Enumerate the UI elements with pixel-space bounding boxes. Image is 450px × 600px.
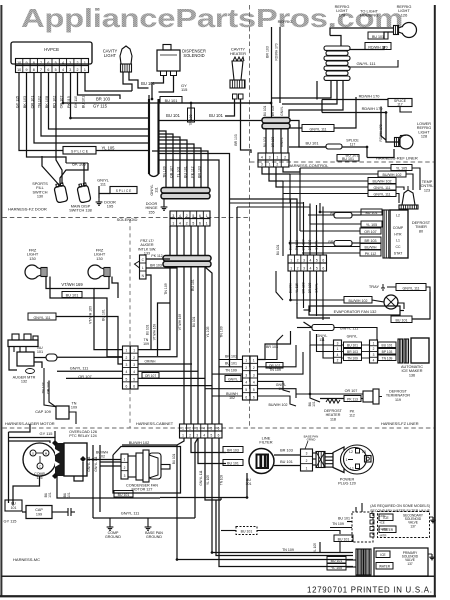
tc wires [300, 167, 391, 169]
svg-text:BU 101: BU 101 [146, 324, 150, 335]
mc drop gn/yl [205, 438, 221, 500]
svg-text:199: 199 [36, 513, 42, 517]
svg-text:OR 107: OR 107 [170, 166, 174, 178]
svg-text:4: 4 [253, 381, 255, 385]
junction dot [92, 458, 94, 460]
svg-text:4: 4 [133, 370, 135, 374]
svg-text:C: C [142, 258, 145, 262]
evaporator fan box [309, 306, 400, 315]
svg-text:178: 178 [339, 12, 346, 17]
svg-text:OR 107: OR 107 [345, 389, 358, 393]
svg-text:L2: L2 [349, 450, 353, 454]
wire bu101 545 [221, 530, 236, 532]
mc drop 2 [191, 438, 226, 453]
auger strip wire 1 [138, 267, 170, 350]
svg-text:YL 105: YL 105 [313, 543, 317, 553]
svg-text:195: 195 [107, 204, 114, 209]
svg-text:BR 103: BR 103 [198, 166, 202, 178]
svg-text:5: 5 [316, 259, 318, 263]
ice maker body [411, 338, 429, 363]
timer wires low [296, 246, 360, 248]
svg-text:10: 10 [17, 61, 21, 65]
lower bar connector [163, 256, 211, 262]
fzl feed wires [219, 359, 243, 361]
svg-text:TN 109: TN 109 [347, 356, 358, 360]
svg-text:1: 1 [182, 427, 184, 431]
svg-text:1: 1 [125, 349, 127, 353]
svg-text:REFRIG: REFRIG [278, 19, 293, 24]
section boundary vertical (control/liner) [249, 5, 251, 428]
wire bu101 liner [367, 149, 394, 158]
svg-text:2: 2 [186, 214, 188, 218]
door harness connector block [170, 211, 210, 219]
wire bu/wh cf [122, 438, 184, 445]
svg-text:2: 2 [297, 259, 299, 263]
splice box [63, 147, 96, 155]
wire rdwh down to bulb [386, 113, 399, 143]
svg-text:GY 115: GY 115 [40, 431, 54, 436]
svg-text:BR 103: BR 103 [347, 350, 358, 354]
frz wire 2 [50, 277, 123, 357]
svg-text:GN/YL 111: GN/YL 111 [402, 286, 419, 290]
svg-text:PK 112: PK 112 [151, 254, 162, 258]
svg-text:L1: L1 [350, 467, 354, 471]
door switch wire 3 [83, 163, 85, 186]
defrost heater symbol [326, 399, 340, 403]
wire rdwh to splice [322, 99, 388, 101]
lower refrig bulb [399, 135, 413, 149]
wire corner x229 [159, 154, 230, 301]
svg-text:4: 4 [203, 427, 205, 431]
svg-text:RD/WH 170: RD/WH 170 [275, 43, 279, 60]
secondary valve cells [379, 514, 393, 521]
wire pin1 run [85, 86, 132, 91]
svg-text:TL 102: TL 102 [177, 167, 181, 178]
door switch 1 [53, 183, 68, 203]
junction dot [289, 299, 291, 301]
svg-text:HARNESS-FZ LINER: HARNESS-FZ LINER [381, 421, 419, 426]
ptc relay black bar [55, 443, 64, 476]
svg-text:BU 101: BU 101 [366, 211, 378, 215]
frz wire stubs [94, 277, 109, 289]
line filter core [257, 455, 269, 469]
wire BK 103 pin9 run [27, 86, 67, 163]
label BU 101 evap [391, 316, 412, 323]
label BU 101 frz [62, 292, 82, 298]
svg-text:SOLENOID: SOLENOID [117, 217, 138, 222]
svg-text:6: 6 [47, 68, 49, 72]
svg-text:BU 101: BU 101 [172, 453, 176, 464]
svg-text:137: 137 [410, 524, 416, 528]
svg-text:BU 101: BU 101 [382, 343, 393, 347]
junction dot [62, 102, 64, 104]
label BR 103 lf1 [223, 447, 243, 453]
svg-text:1: 1 [337, 347, 339, 351]
svg-text:BU 101: BU 101 [396, 318, 408, 322]
svg-text:MOTOR 127: MOTOR 127 [132, 488, 153, 492]
condenser fan strip [121, 454, 128, 479]
wire TN 102 pin7 run [41, 86, 149, 136]
svg-text:5: 5 [253, 388, 255, 392]
svg-text:2: 2 [253, 366, 255, 370]
auger strip wire 6 [138, 385, 213, 387]
svg-text:111: 111 [278, 387, 283, 391]
splice pill 117 [326, 144, 342, 149]
primary valve box [374, 548, 428, 576]
svg-text:RD/WH 170: RD/WH 170 [359, 94, 381, 99]
defrost heater wires [310, 345, 320, 402]
bundle wire PK 112 [159, 144, 195, 187]
svg-text:5: 5 [192, 214, 194, 218]
svg-text:111: 111 [155, 187, 159, 193]
frz wire 1 [46, 277, 123, 350]
svg-text:BU 101: BU 101 [192, 316, 196, 327]
svg-text:115: 115 [181, 87, 188, 92]
svg-text:BU/WH 102: BU/WH 102 [269, 403, 288, 407]
junction dot [309, 393, 311, 395]
svg-text:3: 3 [69, 61, 71, 65]
plug cable [325, 453, 333, 455]
dispenser solenoid wires [152, 76, 164, 100]
wire PK 115 pin3 GY115 run [71, 86, 149, 118]
svg-text:5: 5 [125, 377, 127, 381]
svg-text:3: 3 [172, 214, 174, 218]
bundle wire OR 107 [159, 134, 174, 187]
liner conn drop 2 [269, 167, 283, 181]
svg-text:HARNESS-CABINET: HARNESS-CABINET [136, 421, 174, 426]
svg-text:4: 4 [373, 359, 375, 363]
svg-text:7: 7 [40, 68, 42, 72]
svg-text:BU 101: BU 101 [276, 244, 280, 255]
svg-text:4: 4 [261, 156, 263, 160]
junction dot [151, 98, 153, 100]
svg-text:PLUG 120: PLUG 120 [338, 482, 356, 486]
label PK 112 timer [360, 250, 381, 256]
svg-text:S P L I C E: S P L I C E [71, 149, 89, 153]
svg-text:4: 4 [310, 259, 312, 263]
svg-text:101: 101 [48, 492, 52, 498]
svg-text:HVPCB: HVPCB [44, 47, 59, 52]
svg-text:PK 113: PK 113 [347, 397, 358, 401]
svg-text:BU 101: BU 101 [225, 362, 237, 366]
mc drop 3 [198, 438, 226, 464]
svg-text:TN 109: TN 109 [220, 475, 224, 486]
svg-text:3: 3 [306, 452, 308, 456]
wire or107 dt [296, 393, 363, 395]
plug body [341, 445, 374, 474]
svg-text:2: 2 [77, 68, 79, 72]
wire relay bottoms [57, 476, 160, 498]
svg-text:BU/WH: BU/WH [365, 245, 377, 249]
HVPCB pin wire GY 115 [18, 73, 20, 87]
svg-text:L: L [142, 266, 144, 270]
label GN/YL 111 tray [396, 284, 426, 291]
plug wires [313, 452, 317, 454]
svg-text:BR 103: BR 103 [234, 134, 238, 145]
wv dashed connector [352, 512, 373, 542]
refrig 126 wires [330, 28, 394, 36]
svg-text:109: 109 [71, 406, 77, 410]
svg-text:GN/YL 111: GN/YL 111 [94, 456, 98, 471]
plug trapezoid [333, 447, 344, 473]
svg-text:117: 117 [350, 142, 356, 146]
svg-text:5: 5 [210, 427, 212, 431]
label BU 101 boxed cf [114, 491, 133, 498]
wire rdwh 2 [322, 112, 386, 114]
auger motor terminals [12, 334, 19, 340]
junction dot [69, 117, 71, 119]
svg-text:101: 101 [312, 401, 316, 407]
svg-text:2: 2 [297, 267, 299, 271]
svg-text:BU 101: BU 101 [263, 105, 267, 116]
svg-text:OR 107: OR 107 [364, 230, 376, 234]
evap wires 2 [297, 303, 330, 318]
HVPCB pin wire PK 115 [70, 73, 72, 87]
refrig 126 wires2 [350, 46, 384, 50]
svg-text:BU 101: BU 101 [347, 343, 358, 347]
svg-text:3: 3 [261, 163, 263, 167]
svg-text:5: 5 [316, 267, 318, 271]
junction dot [176, 558, 178, 560]
svg-text:111: 111 [100, 182, 106, 187]
svg-text:BU 101: BU 101 [338, 517, 350, 521]
auger motor body [17, 352, 34, 366]
svg-text:1: 1 [124, 458, 126, 462]
label BU/WH 102 boxed tc1 [378, 171, 406, 177]
svg-text:5: 5 [245, 388, 247, 392]
auger harness connector [123, 346, 131, 389]
ellipse under motor [26, 369, 35, 374]
svg-text:GN/YL 111: GN/YL 111 [121, 511, 140, 516]
plug strip [301, 449, 313, 471]
refrig light 126 bulb [402, 23, 417, 38]
wire or107 auger [66, 377, 123, 379]
svg-text:3: 3 [269, 156, 271, 160]
im boxed labels mid [344, 342, 362, 348]
wire BK106 horiz [66, 162, 88, 164]
svg-text:112: 112 [349, 414, 355, 418]
label YL 105 boxed tc [391, 165, 412, 171]
svg-text:1: 1 [290, 259, 292, 263]
svg-text:BU 101: BU 101 [166, 113, 180, 118]
svg-text:3: 3 [245, 373, 247, 377]
gnd wire [93, 517, 195, 519]
svg-text:GN/YL 111: GN/YL 111 [309, 127, 326, 131]
liner conn drop 4 [283, 167, 300, 172]
plug face [344, 448, 367, 471]
svg-text:4: 4 [179, 222, 181, 226]
svg-text:2: 2 [245, 366, 247, 370]
wire relay to fan [87, 459, 121, 461]
svg-text:2: 2 [189, 427, 191, 431]
liner vertical stubs [279, 98, 281, 103]
svg-text:101: 101 [11, 506, 17, 510]
wire RD 102 pin5 run [56, 86, 62, 184]
svg-text:4: 4 [62, 68, 64, 72]
splice 117a box [388, 99, 412, 107]
svg-text:130: 130 [29, 256, 36, 261]
junction dot [246, 496, 248, 498]
svg-text:BU 101: BU 101 [118, 493, 130, 497]
svg-text:6: 6 [322, 259, 324, 263]
liner conn drop 1 [262, 167, 290, 174]
svg-text:137: 137 [407, 562, 413, 566]
svg-text:4: 4 [125, 370, 127, 374]
svg-text:PTC RELAY 124: PTC RELAY 124 [69, 434, 96, 438]
label OR 107 timer [360, 228, 381, 234]
svg-text:GN/YL 111: GN/YL 111 [356, 61, 376, 66]
svg-text:LIGHT: LIGHT [104, 53, 117, 58]
cavity light bulb [120, 46, 132, 64]
svg-text:117: 117 [397, 103, 403, 107]
gn/yl verticals mc [92, 445, 94, 518]
svg-text:GN/YL: GN/YL [228, 377, 238, 381]
svg-text:CAP: CAP [35, 508, 43, 512]
bottom inner border line [1, 575, 435, 577]
svg-text:BU/WH 102: BU/WH 102 [349, 299, 368, 303]
svg-text:GN/YL: GN/YL [347, 335, 358, 339]
HVPCB pin wire RD 102 [55, 73, 57, 87]
svg-text:126: 126 [401, 12, 408, 17]
label BU 101 r126 [368, 32, 388, 39]
svg-text:HARNESS-REF LINER: HARNESS-REF LINER [376, 156, 418, 161]
svg-text:1: 1 [346, 458, 348, 462]
svg-text:1: 1 [245, 359, 247, 363]
im hatched connector [398, 339, 403, 363]
bundle wire 7 [152, 151, 208, 187]
svg-text:FILTER: FILTER [259, 440, 272, 445]
auger cap wires [44, 368, 58, 407]
wire BK 108 pin6 run [49, 86, 149, 129]
svg-text:1: 1 [172, 222, 174, 226]
refrig 178 wires [272, 81, 332, 98]
cavity heater coil [233, 57, 244, 61]
label GN/YL boxed fzl [225, 376, 241, 382]
svg-text:9: 9 [25, 61, 27, 65]
svg-text:GN/YL 111: GN/YL 111 [373, 192, 390, 196]
svg-text:SWITCH 138: SWITCH 138 [69, 209, 91, 213]
svg-text:111: 111 [319, 338, 324, 342]
svg-text:BU: BU [11, 502, 16, 506]
svg-text:BR 103: BR 103 [266, 345, 278, 349]
svg-text:3: 3 [253, 373, 255, 377]
cavity heater body [232, 61, 243, 80]
svg-text:2: 2 [189, 434, 191, 438]
svg-text:OR/WH: OR/WH [145, 360, 157, 364]
defrost timer body [390, 210, 408, 258]
label YL 105 boxed pv [327, 564, 346, 571]
svg-text:WATER: WATER [382, 528, 394, 532]
svg-text:TN 109: TN 109 [332, 522, 344, 526]
svg-text:9: 9 [25, 68, 27, 72]
label BU 101 boxed liner [337, 155, 359, 162]
conn horiz feeds [230, 199, 298, 255]
svg-text:3: 3 [303, 267, 305, 271]
svg-text:130: 130 [37, 195, 43, 199]
svg-text:COMP: COMP [393, 226, 404, 230]
svg-text:130: 130 [96, 256, 103, 261]
svg-text:BP 103: BP 103 [382, 350, 393, 354]
liner vertical corner down [229, 300, 231, 367]
compressor pins [30, 450, 36, 456]
svg-text:ICE: ICE [380, 553, 385, 557]
svg-text:6: 6 [133, 384, 135, 388]
svg-text:5: 5 [133, 377, 135, 381]
svg-text:4: 4 [245, 381, 247, 385]
svg-text:1: 1 [133, 349, 135, 353]
bundle wires below [169, 226, 171, 256]
svg-text:6: 6 [245, 395, 247, 399]
svg-text:BU/WH 102: BU/WH 102 [383, 173, 402, 177]
frz light 2 bulb [88, 265, 102, 279]
label YL 105 timer [361, 221, 382, 227]
label BU/WH timer [360, 244, 381, 250]
label GN/YL 111 boxed frz [28, 313, 56, 320]
svg-text:PK 112: PK 112 [191, 166, 195, 177]
svg-text:4: 4 [179, 214, 181, 218]
wire BU 101 upper boxed [160, 97, 182, 104]
svg-text:VT/WH 169: VT/WH 169 [89, 306, 93, 324]
svg-text:BU 101: BU 101 [372, 35, 384, 39]
label BU 101 dashbox [236, 527, 257, 535]
wire pin2 run [78, 86, 121, 99]
cabinet bundle wire [183, 267, 185, 424]
label BU/WH 102 evap [344, 297, 372, 304]
wv feed wires [347, 521, 352, 523]
svg-text:5: 5 [192, 222, 194, 226]
base pan ground [147, 523, 149, 527]
ptc relay body [64, 443, 87, 476]
svg-text:BU/WH 102: BU/WH 102 [373, 179, 392, 183]
cavity heater terminals [233, 94, 238, 99]
svg-text:STAT: STAT [394, 251, 403, 255]
svg-text:SOLENOID: SOLENOID [183, 53, 204, 58]
auger strip wire 2 [138, 267, 177, 357]
svg-text:155: 155 [148, 210, 154, 214]
svg-text:3: 3 [373, 353, 375, 357]
svg-text:2: 2 [373, 347, 375, 351]
svg-text:VT/WH 169: VT/WH 169 [61, 282, 83, 287]
wire gnyl mid [290, 127, 302, 129]
label GN/YL 111 boxed tc2 [368, 191, 396, 197]
conn verticals above [290, 199, 292, 255]
svg-text:1: 1 [276, 156, 278, 160]
svg-text:BR 103: BR 103 [227, 448, 239, 452]
liner vertical BR103 down [236, 207, 238, 360]
svg-text:3: 3 [196, 427, 198, 431]
ice maker strip R [370, 340, 378, 363]
plug neck hatch [316, 452, 325, 468]
svg-text:RD/WH 170: RD/WH 170 [362, 106, 384, 111]
svg-text:HARNESS-FZ DOOR: HARNESS-FZ DOOR [8, 207, 47, 212]
trunk cable [148, 99, 150, 174]
svg-text:GY 115: GY 115 [4, 519, 18, 524]
cabinet bundle wire [197, 267, 199, 424]
temp cntrl knob [402, 190, 415, 205]
svg-text:BU 101: BU 101 [280, 460, 293, 464]
svg-text:TN 109: TN 109 [220, 326, 224, 338]
junction dot [289, 242, 291, 244]
svg-text:ICE: ICE [383, 516, 388, 520]
svg-text:6: 6 [199, 214, 201, 218]
svg-text:L1: L1 [396, 239, 400, 243]
mc drop 5 [212, 438, 353, 553]
label GN/YL 111 boxed mid [302, 125, 334, 132]
svg-text:GN/YL 111: GN/YL 111 [33, 316, 50, 320]
label OR 107 augconn [142, 373, 159, 379]
condenser fan motor body [128, 456, 136, 477]
condenser fan enclosure [113, 447, 181, 494]
